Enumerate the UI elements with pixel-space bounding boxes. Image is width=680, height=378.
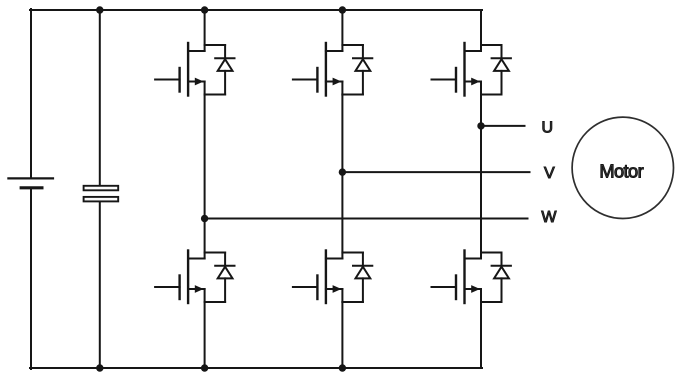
- wire: battery positive lead: [30, 9, 32, 178]
- phase-U leg, high-side MOSFET Q5: [432, 43, 502, 96]
- wire: Q6 source to bottom bus: [480, 302, 482, 368]
- phase-W leg, high-side MOSFET Q1: [155, 43, 225, 96]
- body diode D4: [353, 253, 372, 303]
- phase-V leg, high-side MOSFET Q3: [293, 43, 363, 96]
- phase-V leg, low-side MOSFET Q4: [293, 251, 363, 304]
- wire: phase V output: [342, 171, 529, 173]
- node: bottom bus / leg 1 junction: [201, 364, 208, 371]
- body diode D3: [353, 45, 372, 95]
- body diode D6: [492, 253, 511, 303]
- wire: DC-link capacitor bottom lead: [99, 202, 101, 369]
- svg-text:W: W: [541, 209, 557, 226]
- wire: battery negative lead: [30, 188, 32, 369]
- capacitor C1 (DC-link): [84, 186, 119, 202]
- wire: top DC bus (+): [30, 9, 482, 11]
- motor M1: [572, 117, 673, 218]
- wire: leg midpoint, Q3 source to Q4 drain: [341, 95, 343, 259]
- node: top bus / leg 2 junction: [339, 6, 346, 13]
- wire: Q3 drain from top bus: [341, 10, 343, 51]
- node U (leg 3 midpoint): [477, 122, 484, 129]
- node: bottom bus / leg 2 junction: [339, 364, 346, 371]
- node: top bus / leg 1 junction: [201, 6, 208, 13]
- node: bottom bus / capacitor junction: [96, 364, 103, 371]
- wire: Q2 source to bottom bus: [204, 302, 206, 368]
- body diode D2: [215, 253, 234, 303]
- wire: leg midpoint, Q1 source to Q2 drain: [204, 95, 206, 259]
- wire: Q4 source to bottom bus: [341, 302, 343, 368]
- svg-text:Motor: Motor: [599, 160, 643, 181]
- wire: phase W output: [205, 218, 528, 220]
- wire: phase U output: [481, 125, 525, 127]
- node V (leg 2 midpoint): [339, 168, 346, 175]
- svg-text:U: U: [542, 119, 554, 136]
- body diode D1: [215, 45, 234, 95]
- wire: Q5 drain from top bus: [480, 10, 482, 51]
- node W (leg 1 midpoint): [201, 215, 208, 222]
- node: top bus / capacitor junction: [96, 6, 103, 13]
- svg-text:V: V: [544, 165, 555, 182]
- wire: bottom DC bus (-): [30, 367, 482, 369]
- body diode D5: [492, 45, 511, 95]
- phase-U leg, low-side MOSFET Q6: [432, 251, 502, 304]
- phase-W leg, low-side MOSFET Q2: [155, 251, 225, 304]
- wire: leg midpoint, Q5 source to Q6 drain: [480, 95, 482, 259]
- wire: Q1 drain from top bus: [204, 10, 206, 51]
- battery B1: [8, 178, 53, 187]
- wire: DC-link capacitor top lead: [99, 10, 101, 186]
